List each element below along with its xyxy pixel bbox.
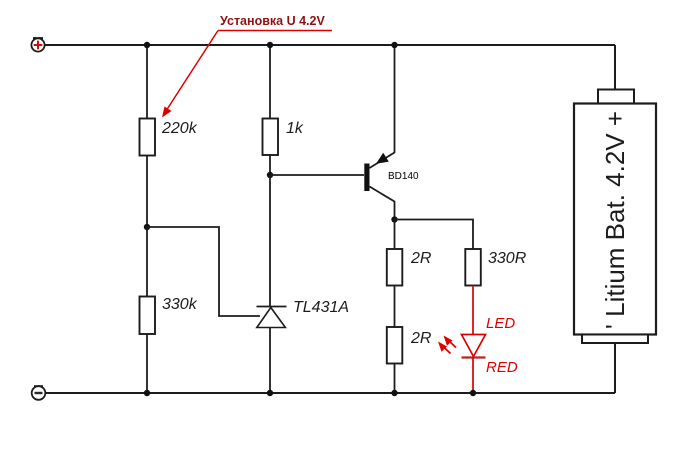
svg-text:330R: 330R (488, 250, 527, 267)
node divider junction (144, 224, 150, 230)
node bottom rail LED (470, 390, 476, 396)
LED emission arrow 1 (444, 336, 457, 348)
resistor R6 330R (465, 249, 481, 286)
svg-text:BD140: BD140 (388, 171, 419, 182)
wire 220k top (146, 45, 148, 119)
wire battery bottom drop (614, 343, 616, 393)
svg-text:2R: 2R (410, 330, 432, 347)
LED emission arrow 2 (438, 342, 451, 354)
annotation arrowhead (162, 107, 172, 118)
resistor R3 1k (263, 119, 279, 156)
wire LED cathode (red) (472, 358, 474, 394)
wire collector to 330R (395, 220, 474, 250)
wire emitter (394, 45, 396, 153)
annotation arrow line (164, 31, 218, 115)
wire 330k bottom (146, 334, 148, 393)
wire 2R bottom (394, 364, 396, 394)
svg-text:Установка U 4.2V: Установка U 4.2V (220, 14, 325, 28)
node collector (391, 216, 397, 222)
svg-text:TL431A: TL431A (293, 299, 349, 316)
node top rail / 1k (267, 42, 273, 48)
svg-text:RED: RED (486, 359, 518, 376)
resistor R2 330k (140, 297, 156, 335)
wire top rail (45, 44, 615, 46)
wire reference tap to TL431 (147, 227, 260, 316)
wire 330R to LED anode (red) (472, 286, 474, 335)
node bottom rail 2R (391, 390, 397, 396)
wire bottom rail (46, 392, 615, 394)
wire base node to TL431 cathode (269, 175, 271, 306)
wire between 2R resistors (394, 286, 396, 328)
wire junction to 330k (146, 227, 148, 297)
wire base (270, 174, 364, 176)
svg-text:' Litium Bat. 4.2V +: ' Litium Bat. 4.2V + (600, 111, 630, 329)
wire battery top drop (614, 45, 616, 90)
wire collector (394, 201, 396, 220)
svg-text:220k: 220k (161, 120, 198, 137)
node top rail / emitter (391, 42, 397, 48)
node bottom rail 330k (144, 390, 150, 396)
svg-text:1k: 1k (286, 120, 304, 137)
wire 220k bottom (146, 156, 148, 228)
resistor R4 2R (387, 249, 403, 286)
wire TL431 anode (269, 328, 271, 393)
annotation underline (218, 30, 332, 32)
TL431 U1 (257, 307, 287, 328)
node bottom rail TL431 (267, 390, 273, 396)
LED D1 (462, 335, 486, 358)
terminal minus (32, 386, 46, 400)
svg-text:330k: 330k (162, 296, 198, 313)
resistor R1 220k (140, 119, 156, 156)
wire 1k bottom (269, 155, 271, 175)
node base (267, 172, 273, 178)
battery BT1 (574, 90, 656, 344)
wire collector to 2R (394, 220, 396, 250)
wire 1k top (269, 45, 271, 119)
svg-text:2R: 2R (410, 250, 432, 267)
resistor R5 2R (387, 327, 403, 364)
transistor Q1 BD140 (364, 153, 394, 202)
svg-text:LED: LED (486, 315, 515, 332)
terminal plus (31, 38, 44, 51)
node top rail / 220k (144, 42, 150, 48)
